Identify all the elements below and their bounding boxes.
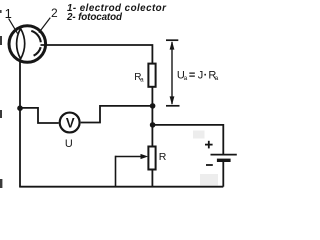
- label 2 pointer: [39, 18, 50, 33]
- wire: battery loop top: [153, 125, 224, 154]
- svg-text:1: 1: [5, 6, 12, 21]
- label 1 pointer: [9, 19, 18, 34]
- battery B1 long plate: [211, 154, 237, 156]
- wire: voltmeter right branch: [81, 106, 153, 123]
- node C (battery branch tap): [150, 122, 156, 128]
- battery B1 plus sign: [205, 141, 213, 149]
- node B (voltmeter tap on right rail): [150, 103, 156, 109]
- svg-text:U: U: [65, 138, 73, 150]
- wire: Ra bottom down to potentiometer: [151, 87, 153, 147]
- svg-text:V: V: [66, 116, 75, 131]
- wire: voltmeter left branch: [20, 108, 59, 123]
- wire: bottom rail: [19, 186, 223, 188]
- collector electrode (lens): [17, 29, 25, 59]
- potentiometer R body: [148, 147, 155, 170]
- voltmeter U1: [60, 113, 80, 133]
- photocathode arc: [31, 31, 41, 56]
- wire: battery bottom lead: [222, 162, 224, 187]
- phototube envelope V1: [9, 26, 46, 63]
- wire: anode to top-right corner and down: [41, 45, 153, 65]
- wire: left rail: [19, 59, 21, 187]
- svg-text:·: ·: [204, 70, 208, 82]
- resistor Ra: [148, 64, 155, 87]
- svg-text:a: a: [184, 75, 188, 82]
- wire: pot bottom lead: [151, 170, 153, 188]
- dimension arrow Ua: [166, 40, 180, 106]
- battery B1 short plate: [217, 159, 231, 162]
- svg-text:J: J: [198, 70, 204, 82]
- svg-text:a: a: [215, 75, 219, 82]
- label Ua = J * Ra: [177, 70, 219, 83]
- svg-text:2: 2: [51, 6, 58, 20]
- legend text: [66, 3, 167, 23]
- node A (voltmeter tap on left rail): [17, 105, 23, 111]
- svg-text:2- fotocatod: 2- fotocatod: [66, 12, 123, 23]
- potentiometer wiper arrow: [116, 154, 149, 187]
- svg-text:R: R: [159, 151, 167, 163]
- battery B1 minus sign: [206, 164, 213, 166]
- svg-text:=: =: [189, 70, 195, 82]
